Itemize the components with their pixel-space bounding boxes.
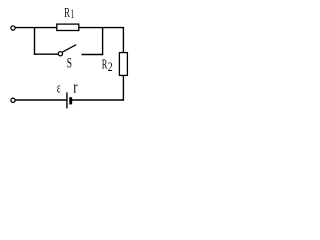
switch S blade: [62, 45, 76, 52]
svg-text:2: 2: [108, 60, 113, 74]
switch S pivot (open circle): [58, 52, 62, 56]
battery negative plate (short thick): [69, 97, 72, 104]
svg-text:ε: ε: [57, 81, 61, 97]
svg-text:r: r: [73, 78, 78, 97]
svg-text:1: 1: [71, 7, 74, 21]
top terminal (open circle): [11, 26, 15, 30]
wire: right vertical above R2: [122, 28, 124, 53]
svg-text:R: R: [64, 5, 70, 20]
wire: junction drop to switch branch: [34, 28, 36, 55]
battery positive plate (long): [66, 92, 68, 108]
resistor R1 (box): [57, 24, 79, 30]
wire: top-left from terminal to R1: [15, 27, 57, 29]
wire: switch branch right segment: [82, 54, 104, 56]
wire: right branch drop to switch: [102, 28, 104, 55]
bottom terminal (open circle): [11, 98, 15, 102]
resistor R2 (box): [119, 53, 127, 76]
wire: top from R1 to right corner: [79, 27, 124, 29]
wire: bottom from R2 to battery: [72, 99, 124, 101]
svg-text:S: S: [67, 56, 72, 72]
wire: bottom-left from terminal to battery: [15, 99, 66, 101]
wire: switch branch left segment: [34, 53, 59, 55]
wire: right vertical below R2: [122, 75, 124, 101]
